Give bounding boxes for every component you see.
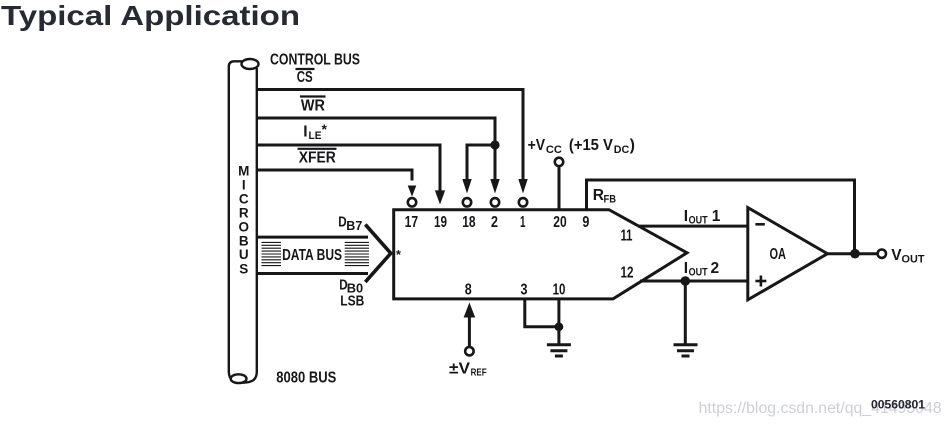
IOUT1 label bbox=[684, 208, 721, 227]
svg-text:REF: REF bbox=[471, 367, 487, 379]
pin terminal circle 17 bbox=[408, 198, 416, 206]
svg-text:I: I bbox=[684, 260, 688, 277]
svg-text:17: 17 bbox=[405, 214, 419, 231]
svg-text:R: R bbox=[239, 206, 249, 221]
DB0 label bbox=[339, 276, 363, 295]
pin terminal circle 18 bbox=[463, 198, 471, 206]
wire IOUT2 to ground bbox=[684, 281, 687, 345]
RFB label bbox=[593, 187, 616, 206]
svg-text:LE: LE bbox=[309, 130, 322, 142]
microbus cylinder bbox=[229, 59, 259, 383]
svg-text:OA: OA bbox=[770, 246, 787, 263]
svg-text:19: 19 bbox=[434, 214, 447, 231]
junction IOUT2 bbox=[681, 276, 691, 286]
VREF terminal bbox=[465, 347, 473, 355]
svg-text:20: 20 bbox=[553, 214, 566, 231]
svg-text:2: 2 bbox=[491, 214, 498, 231]
svg-text:DC: DC bbox=[614, 144, 630, 156]
svg-text:3: 3 bbox=[521, 282, 528, 299]
svg-text:9: 9 bbox=[582, 214, 589, 231]
microbus label bbox=[238, 164, 249, 277]
wire WR to pin 2 bbox=[257, 118, 495, 181]
svg-text:OUT: OUT bbox=[689, 215, 708, 227]
VOUT terminal bbox=[878, 250, 886, 258]
IOUT2 label bbox=[684, 260, 719, 279]
WR label with overline bbox=[300, 97, 326, 115]
svg-text:S: S bbox=[239, 262, 248, 277]
wire VREF to pin 8 bbox=[468, 316, 471, 347]
VCC terminal bbox=[555, 158, 563, 166]
svg-text:DATA BUS: DATA BUS bbox=[282, 247, 342, 264]
svg-text:12: 12 bbox=[621, 265, 634, 282]
wire ILE to pin 19 bbox=[257, 145, 440, 192]
data bus arrow bbox=[257, 225, 391, 283]
CS label with overline bbox=[296, 69, 315, 86]
ILE label bbox=[303, 121, 327, 142]
svg-text:FB: FB bbox=[604, 193, 617, 205]
pin terminal circle 2 bbox=[491, 198, 499, 206]
VREF label bbox=[449, 361, 487, 379]
XFER label with overline bbox=[298, 149, 337, 167]
svg-text:XFER: XFER bbox=[299, 150, 336, 167]
wire XFER to pin 17 bbox=[257, 170, 412, 181]
wire op-amp output bbox=[828, 252, 878, 255]
svg-text:±V: ±V bbox=[449, 361, 471, 378]
svg-text:8: 8 bbox=[465, 282, 472, 299]
wire VCC to pin 20 bbox=[558, 167, 561, 210]
DB7 label bbox=[338, 214, 362, 234]
junction pins 3 and 10 bbox=[555, 322, 564, 331]
svg-text:B7: B7 bbox=[346, 219, 362, 233]
wire pin 10 to ground bbox=[557, 299, 560, 345]
svg-text:M: M bbox=[238, 164, 249, 179]
svg-text:CS: CS bbox=[297, 69, 313, 86]
svg-text:I: I bbox=[242, 178, 246, 193]
svg-text:C: C bbox=[239, 192, 249, 207]
junction output node bbox=[850, 249, 860, 259]
junction WR branch bbox=[490, 140, 499, 149]
wire IOUT1 to op-amp bbox=[639, 225, 748, 228]
wire WR branch to pin 18 bbox=[467, 145, 495, 181]
svg-text:1: 1 bbox=[520, 214, 526, 231]
VCC supply label bbox=[528, 137, 635, 156]
op-amp minus input mark bbox=[755, 223, 764, 226]
svg-text:(+15 V: (+15 V bbox=[569, 137, 614, 154]
wire IOUT2 to op-amp bbox=[640, 280, 748, 283]
op-amp plus input mark bbox=[755, 276, 766, 287]
ground at IOUT2 bbox=[674, 345, 698, 356]
svg-text:CC: CC bbox=[546, 144, 562, 156]
svg-text:U: U bbox=[239, 247, 249, 262]
svg-text:): ) bbox=[630, 137, 635, 154]
op-amp OA bbox=[748, 208, 828, 300]
svg-text:1: 1 bbox=[712, 208, 721, 225]
svg-text:B: B bbox=[239, 233, 249, 248]
ground at pins 3 and 10 bbox=[547, 345, 571, 356]
svg-text:R: R bbox=[593, 187, 604, 204]
DAC chip body bbox=[394, 210, 687, 299]
svg-text:2: 2 bbox=[711, 260, 720, 277]
svg-text:*: * bbox=[322, 121, 328, 137]
svg-text:Typical Application: Typical Application bbox=[1, 0, 300, 31]
svg-text:CONTROL BUS: CONTROL BUS bbox=[270, 52, 360, 69]
svg-text:+V: +V bbox=[528, 137, 546, 154]
wire pin 3 to ground node bbox=[525, 299, 559, 327]
svg-text:OUT: OUT bbox=[689, 267, 708, 279]
VOUT label bbox=[891, 247, 924, 266]
svg-text:OUT: OUT bbox=[902, 254, 925, 266]
svg-text:LSB: LSB bbox=[340, 293, 364, 310]
svg-text:I: I bbox=[684, 208, 688, 225]
pin terminal circle 1 bbox=[519, 198, 527, 206]
svg-text:00560801: 00560801 bbox=[871, 400, 926, 412]
chip step edge at pin 9 and RFB feedback wire bbox=[587, 180, 855, 254]
svg-text:WR: WR bbox=[301, 97, 325, 114]
svg-text:18: 18 bbox=[462, 214, 476, 231]
svg-text:I: I bbox=[303, 123, 307, 140]
wire CS to pin 1 bbox=[257, 90, 523, 181]
svg-text:11: 11 bbox=[621, 228, 633, 245]
svg-text:10: 10 bbox=[553, 282, 566, 299]
svg-text:8080 BUS: 8080 BUS bbox=[276, 370, 336, 387]
data bus hatching bbox=[262, 242, 370, 265]
